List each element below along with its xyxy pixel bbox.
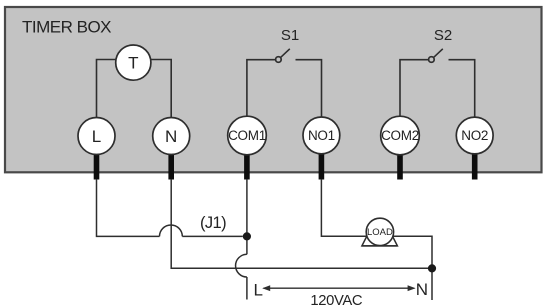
terminal COM1 bbox=[228, 116, 267, 155]
terminal stub COM1 bbox=[244, 152, 250, 180]
wire N terminal down and right to load junction bbox=[171, 179, 432, 268]
terminal stub COM2 bbox=[397, 152, 403, 180]
wire COM1 to switch S1 bbox=[247, 60, 276, 118]
load junction on N line bbox=[428, 264, 436, 272]
wire L terminal down and right to junction J1 bbox=[97, 179, 243, 236]
wire COM2 to switch S2 bbox=[400, 60, 429, 118]
svg-text:NO1: NO1 bbox=[308, 128, 335, 143]
svg-text:120VAC: 120VAC bbox=[310, 293, 363, 306]
svg-text:COM2: COM2 bbox=[381, 128, 419, 143]
label 120VAC bbox=[310, 293, 363, 306]
svg-text:T: T bbox=[128, 54, 138, 73]
terminal stub NO1 bbox=[319, 152, 325, 180]
switch S2 bbox=[429, 49, 443, 63]
svg-text:S1: S1 bbox=[281, 27, 299, 44]
label N of 120VAC source bbox=[416, 280, 428, 299]
svg-text:TIMER BOX: TIMER BOX bbox=[22, 17, 111, 36]
timer T bbox=[116, 45, 151, 80]
svg-text:NO2: NO2 bbox=[461, 128, 488, 143]
wire NO1 to switch S1 bbox=[296, 60, 322, 118]
label L of 120VAC source bbox=[254, 280, 263, 299]
label TIMER BOX bbox=[22, 17, 111, 36]
terminal stub NO2 bbox=[472, 152, 478, 180]
wire NO2 to switch S2 bbox=[449, 60, 475, 118]
svg-text:N: N bbox=[416, 280, 428, 299]
terminal stub L bbox=[94, 152, 100, 180]
wire load to 120VAC N bbox=[393, 236, 432, 300]
wire COM1 terminal down to junction J1 bbox=[246, 179, 248, 236]
wire NO1 terminal down and right to load bbox=[321, 179, 367, 236]
terminal stub N bbox=[168, 152, 174, 180]
label (J1) bbox=[200, 214, 226, 232]
timer box enclosure bbox=[5, 7, 542, 172]
switch S1 bbox=[276, 49, 290, 63]
svg-text:L: L bbox=[254, 280, 263, 299]
svg-text:LOAD: LOAD bbox=[367, 227, 393, 238]
terminal NO1 bbox=[303, 117, 340, 154]
terminal N bbox=[153, 118, 190, 155]
label S1 bbox=[281, 27, 299, 44]
svg-text:L: L bbox=[92, 127, 101, 146]
svg-text:COM1: COM1 bbox=[228, 128, 266, 143]
svg-text:N: N bbox=[165, 127, 177, 146]
terminal NO2 bbox=[456, 117, 493, 154]
wire junction J1 down to 120VAC L with crossover arc bbox=[236, 236, 247, 299]
load LOAD bbox=[362, 218, 398, 246]
svg-text:(J1): (J1) bbox=[200, 214, 226, 232]
terminal L bbox=[78, 118, 115, 155]
terminal COM2 bbox=[381, 116, 420, 155]
label S2 bbox=[434, 27, 452, 44]
junction J1 bbox=[243, 232, 251, 240]
svg-text:S2: S2 bbox=[434, 27, 452, 44]
arrow 120VAC span bbox=[262, 285, 415, 291]
wire L to T to N bbox=[97, 60, 172, 119]
